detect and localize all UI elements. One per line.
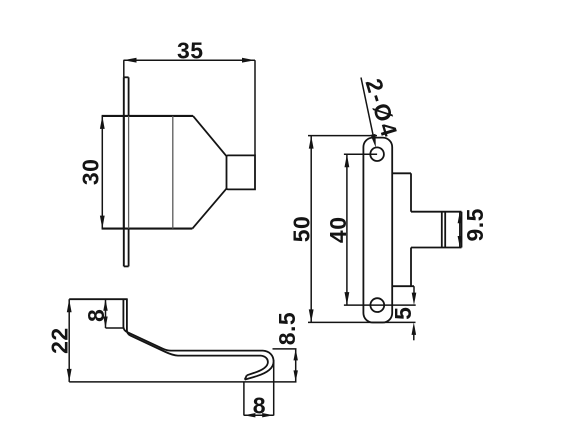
hole bottom 2-Ø4: [370, 298, 384, 312]
svg-text:5: 5: [390, 307, 416, 320]
bracket outer surface (tab, diagonal, horizontal): [123, 299, 263, 350]
leader line 2-Ø4: [361, 78, 376, 148]
dimension line 8.5: [294, 349, 298, 382]
dimension text 22: [46, 327, 72, 354]
dimension 5 lower arrow and stem: [412, 322, 417, 340]
bracket inner surface (tab, diagonal, horizontal): [127, 299, 261, 355]
extension line 50/5 bottom: [308, 321, 416, 323]
bracket hook inner curve: [247, 356, 268, 376]
bracket top edge and extension: [69, 298, 128, 300]
extension line 40/5 bottom through hole center: [344, 304, 416, 306]
bracket hook outer curve: [245, 351, 274, 380]
dimension line 30: [100, 116, 105, 229]
dimension 5 upper arrow and stem: [412, 286, 417, 305]
dimension line 22: [67, 299, 72, 382]
label text 2-Ø4: [360, 76, 403, 142]
dimension line 8 tab: [103, 299, 107, 328]
plunger groove line 1: [441, 212, 443, 248]
body rectangle front view: [392, 173, 414, 286]
dimension line 8 hook: [244, 413, 274, 417]
dimension text 35: [177, 38, 204, 64]
svg-text:35: 35: [177, 38, 204, 64]
extension line 8.5 top: [273, 348, 297, 350]
dimension text 5: [390, 307, 416, 320]
svg-text:9.5: 9.5: [462, 208, 488, 241]
dimension text 8.5: [274, 312, 300, 345]
funnel top diagonal: [193, 116, 227, 156]
hole top 2-Ø4: [370, 147, 384, 161]
plunger front view: [411, 212, 462, 248]
extension bottom-8 left: [243, 382, 245, 416]
dimension text 9.5: [462, 208, 488, 241]
dimension text 50: [288, 216, 314, 243]
extension bottom-8 right: [273, 360, 275, 416]
dimension text 30: [78, 159, 104, 186]
dimension text 8 hook: [253, 393, 266, 419]
dimension text 8 tab: [83, 309, 109, 322]
svg-text:30: 30: [78, 159, 104, 186]
dimension line 50: [309, 136, 314, 323]
extension line right of 35: [254, 60, 256, 155]
plate right edge through body: [128, 116, 130, 229]
dimension text 40: [325, 217, 351, 244]
extension line 50 top: [308, 135, 377, 137]
dimension line 40: [345, 154, 350, 305]
bracket bottom extension line: [69, 381, 296, 383]
switch body outline (left view): [102, 116, 193, 229]
extension line 8 tab bottom: [106, 327, 124, 329]
svg-text:50: 50: [288, 216, 314, 243]
dimension line 9.5: [458, 212, 462, 248]
bracket end cut edge: [245, 375, 247, 379]
svg-text:40: 40: [325, 217, 351, 244]
plunger groove line 2: [444, 212, 446, 248]
dimension line 35: [124, 58, 256, 63]
internal body line: [172, 116, 174, 229]
svg-text:22: 22: [46, 327, 72, 354]
mounting plate front view: [363, 138, 392, 323]
funnel bottom diagonal: [192, 189, 226, 229]
svg-text:8: 8: [253, 393, 266, 419]
extension line left of 35: [123, 60, 125, 77]
svg-text:8.5: 8.5: [274, 312, 300, 345]
mounting plate edge view: [124, 77, 129, 266]
svg-text:8: 8: [83, 309, 109, 322]
extension line 40 top: [344, 153, 377, 155]
push button (left view): [227, 155, 256, 189]
